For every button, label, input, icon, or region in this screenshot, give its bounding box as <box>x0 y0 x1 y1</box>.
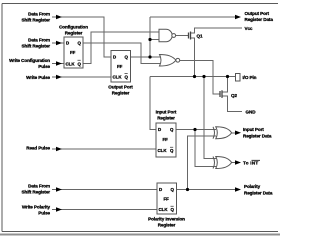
svg-text:D: D <box>66 41 69 46</box>
svg-text:CLK: CLK <box>158 148 168 153</box>
svg-text:Output Port: Output Port <box>245 11 270 16</box>
svg-text:FF: FF <box>70 50 76 55</box>
svg-text:Register Data: Register Data <box>245 17 274 22</box>
svg-text:Shift Register: Shift Register <box>22 18 51 23</box>
svg-text:Configuration: Configuration <box>59 25 88 30</box>
svg-text:Data From: Data From <box>28 38 50 43</box>
svg-text:FF: FF <box>117 64 123 69</box>
svg-text:Register: Register <box>112 91 130 96</box>
svg-text:Q: Q <box>170 148 174 153</box>
svg-text:I/O Pin: I/O Pin <box>243 75 257 80</box>
svg-text:Register Data: Register Data <box>244 191 273 196</box>
svg-text:Register Data: Register Data <box>243 134 272 139</box>
svg-text:Input Port: Input Port <box>156 110 177 115</box>
svg-text:Read Pulse: Read Pulse <box>26 145 50 150</box>
svg-text:Q: Q <box>171 187 175 192</box>
svg-text:Register: Register <box>158 223 176 228</box>
svg-text:Write Pulse: Write Pulse <box>26 75 50 80</box>
svg-text:CLK: CLK <box>66 61 76 66</box>
svg-text:CLK: CLK <box>113 75 123 80</box>
svg-text:Pulse: Pulse <box>38 210 50 215</box>
svg-text:FF: FF <box>164 197 170 202</box>
svg-text:Register: Register <box>157 116 175 121</box>
svg-text:D: D <box>113 55 116 60</box>
svg-text:Register: Register <box>65 31 83 36</box>
svg-text:Vcc: Vcc <box>245 26 253 31</box>
svg-text:Shift Register: Shift Register <box>22 44 51 49</box>
svg-text:Write Polarity: Write Polarity <box>22 204 51 209</box>
svg-text:Output Port: Output Port <box>108 85 133 90</box>
svg-text:Q2: Q2 <box>231 93 237 98</box>
svg-text:Data From: Data From <box>28 184 50 189</box>
svg-text:Q: Q <box>171 207 175 212</box>
svg-text:Shift Register: Shift Register <box>22 190 51 195</box>
svg-text:Q: Q <box>78 41 82 46</box>
svg-text:Write Configuration: Write Configuration <box>9 58 50 63</box>
svg-text:Q: Q <box>78 61 82 66</box>
svg-text:Q: Q <box>170 127 174 132</box>
svg-text:Data From: Data From <box>28 12 50 17</box>
svg-text:To INT: To INT <box>243 161 258 166</box>
svg-text:Input Port: Input Port <box>243 127 264 132</box>
svg-text:D: D <box>158 127 161 132</box>
svg-text:GND: GND <box>246 110 257 115</box>
svg-text:D: D <box>159 187 162 192</box>
svg-text:Q1: Q1 <box>197 34 203 39</box>
svg-text:CLK: CLK <box>159 207 169 212</box>
svg-text:FF: FF <box>163 137 169 142</box>
svg-text:Q: Q <box>125 75 129 80</box>
svg-text:Pulse: Pulse <box>38 64 50 69</box>
svg-text:Polarity Inversion: Polarity Inversion <box>148 217 185 222</box>
svg-text:Q: Q <box>125 55 129 60</box>
svg-text:Polarity: Polarity <box>244 184 261 189</box>
